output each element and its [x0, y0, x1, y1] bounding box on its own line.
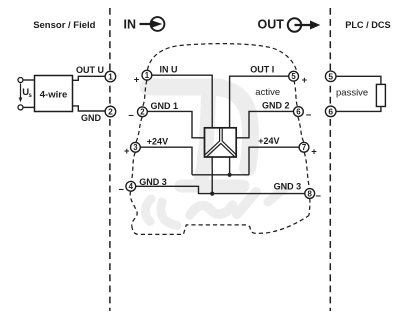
svg-text:7: 7: [302, 143, 306, 152]
svg-text:IN U: IN U: [160, 65, 178, 75]
PLC terminal 6: [325, 106, 336, 117]
device terminal 5: [289, 71, 299, 81]
svg-text:2: 2: [140, 108, 145, 117]
svg-text:OUT: OUT: [258, 18, 285, 32]
wire IN U: terminal 1 to isolator top-left pin: [152, 75, 212, 127]
svg-text:+: +: [311, 146, 317, 157]
svg-text:OUT U: OUT U: [76, 65, 104, 75]
svg-text:GND 2: GND 2: [262, 100, 290, 110]
device outline between terminals 2-3: [136, 117, 142, 142]
svg-text:+24V: +24V: [258, 136, 279, 146]
wire GND 3 rail: terminal 4 to terminal 8: [136, 186, 305, 193]
svg-text:−: −: [118, 185, 124, 196]
svg-text:GND 3: GND 3: [274, 182, 302, 192]
junction dot on +24V bus: [228, 173, 232, 177]
svg-text:−: −: [128, 110, 134, 121]
device terminal 2: [138, 107, 148, 117]
svg-text:PLC / DCS: PLC / DCS: [345, 20, 390, 30]
svg-text:GND 1: GND 1: [151, 101, 179, 111]
device terminal 4: [126, 181, 136, 191]
svg-text:5: 5: [328, 71, 333, 81]
wire source bottom to 4-wire box: [23, 106, 34, 108]
right boundary dashed line (OUT | PLC/DCS): [329, 8, 331, 311]
device outline between terminals 3-4: [131, 152, 135, 181]
field terminal 1: [105, 71, 116, 82]
device terminal 8: [305, 189, 315, 199]
passive load loop wire: [336, 76, 381, 111]
svg-text:+: +: [124, 146, 130, 157]
svg-text:2: 2: [108, 107, 113, 117]
svg-text:GND 3: GND 3: [139, 177, 167, 187]
svg-text:IN: IN: [124, 18, 137, 32]
OUT icon (arrow out of circle): [288, 18, 321, 31]
svg-text:1: 1: [108, 72, 113, 82]
svg-text:3: 3: [133, 143, 138, 152]
Us arrow: [20, 84, 22, 99]
resistor (passive load): [376, 84, 385, 106]
svg-text:8: 8: [308, 189, 313, 198]
left boundary dashed line (Sensor/Field | IN): [109, 8, 111, 311]
svg-text:+: +: [302, 75, 308, 86]
device terminal 7: [299, 142, 309, 152]
device terminal 6: [294, 107, 304, 117]
svg-text:OUT I: OUT I: [250, 64, 274, 74]
terminal circles: [105, 70, 336, 198]
device outline between terminals 7-8: [304, 152, 309, 188]
svg-text:4-wire: 4-wire: [40, 89, 67, 100]
wire GND 1: terminal 2 to isolator left pin: [147, 111, 204, 137]
device terminal 1: [142, 70, 152, 80]
field terminal 2: [105, 106, 116, 117]
device outline between terminals 5-6: [294, 80, 298, 106]
svg-text:+24V: +24V: [147, 136, 168, 146]
wire 4-wire OUT U to terminal 1: [73, 76, 106, 80]
svg-text:6: 6: [296, 107, 301, 116]
device outline between terminals 1-2: [143, 80, 147, 106]
wire GND 2: terminal 6 to isolator right pin: [236, 111, 293, 137]
IN icon (arrow into circle): [140, 17, 165, 31]
wire OUT I: terminal 5 to isolator top-right pin: [230, 76, 289, 127]
device outline top arc (dashed): [148, 44, 297, 71]
device terminal 3: [131, 142, 141, 152]
voltage source Us top node: [18, 78, 23, 83]
PLC terminal 5: [325, 71, 336, 82]
svg-text:passive: passive: [336, 88, 368, 99]
svg-text:GND: GND: [81, 113, 102, 123]
voltage source Us bottom node: [18, 105, 23, 110]
transmitter 4-wire box: [35, 76, 73, 112]
wire isolator bottom pin to GND 3 rail: [211, 157, 213, 194]
watermark logo (light gray): [145, 87, 285, 226]
device outline terminal 4 to bottom foot: [130, 191, 137, 226]
device outline bottom (DIN rail foot profile): [132, 199, 310, 235]
wire isolator bottom pin to +24V bus: [229, 157, 231, 175]
wire source top to 4-wire box: [23, 79, 34, 81]
svg-text:Sensor / Field: Sensor / Field: [33, 20, 95, 31]
svg-text:4: 4: [129, 182, 134, 191]
isolator U1 (3-port isolation amplifier symbol): [205, 128, 237, 157]
svg-text:−: −: [315, 191, 321, 202]
junction dot on GND 3 rail: [210, 192, 214, 196]
svg-text:6: 6: [328, 107, 333, 117]
svg-text:active: active: [255, 87, 280, 98]
wire 4-wire GND to terminal 2: [73, 106, 106, 111]
svg-text:−: −: [306, 110, 312, 121]
wire supply bus under isolator: [192, 174, 249, 176]
svg-text:5: 5: [291, 72, 296, 81]
wire +24V right: terminal 7 to supply bus: [249, 147, 299, 175]
device outline between terminals 6-7: [298, 117, 304, 143]
wire +24V left: terminal 3 to supply bus: [140, 147, 192, 175]
svg-text:+: +: [134, 74, 140, 85]
svg-text:1: 1: [145, 71, 150, 80]
